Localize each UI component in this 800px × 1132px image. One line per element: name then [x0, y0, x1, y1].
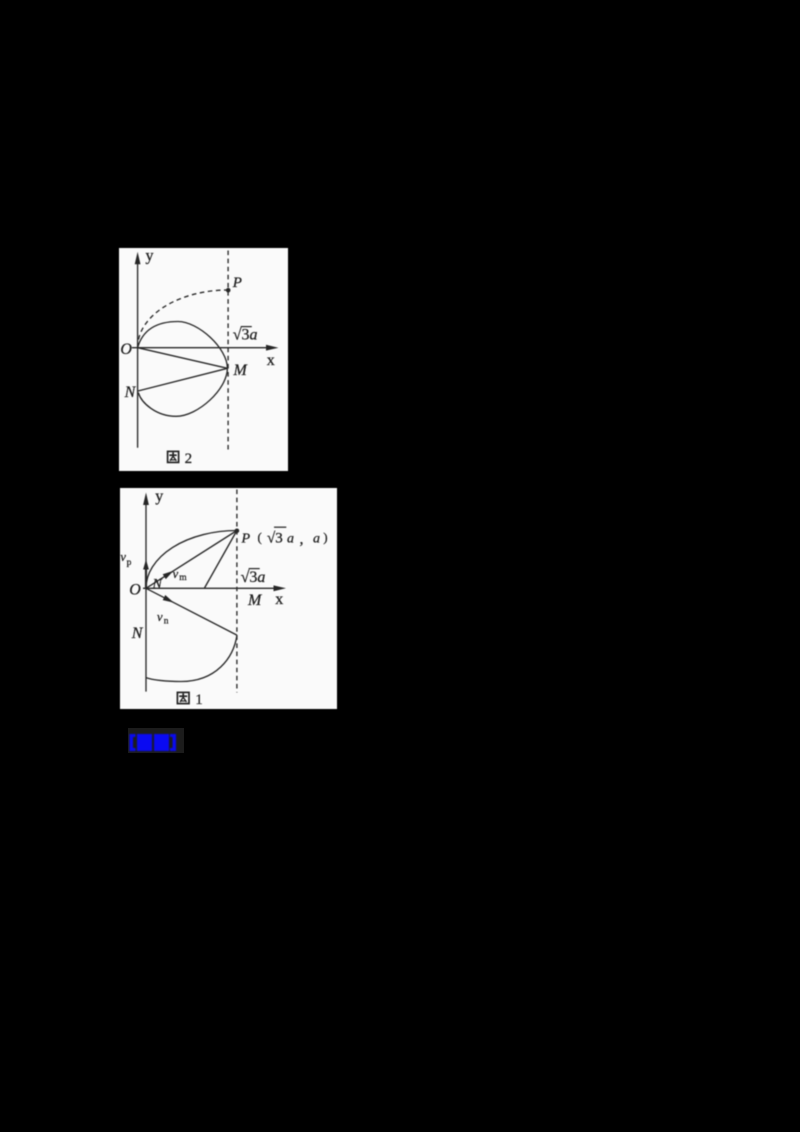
y-axis arrowhead — [143, 493, 149, 506]
chord O-A (n trajectory start) — [146, 588, 237, 635]
chord O-P — [146, 531, 237, 589]
svg-text:x: x — [275, 591, 283, 608]
解析 label (blue) — [128, 728, 184, 753]
svg-text:√3: √3 — [267, 531, 283, 547]
vn arrowhead — [163, 595, 174, 603]
y-axis — [137, 263, 139, 448]
figure box 图2 (upper figure) — [119, 248, 288, 471]
svg-text:n: n — [164, 617, 169, 627]
svg-text:y: y — [146, 248, 154, 265]
bracket left of 【解析】 — [130, 734, 136, 751]
svg-text:v: v — [173, 567, 179, 581]
svg-text:y: y — [155, 488, 163, 505]
svg-text:2: 2 — [185, 451, 193, 467]
vm arrowhead — [163, 571, 174, 579]
circle through O N M — [138, 322, 228, 417]
chord O-M — [138, 348, 228, 369]
svg-text:N: N — [124, 384, 137, 401]
char 析 (approximated dense block) — [154, 734, 169, 751]
x-axis — [143, 587, 275, 589]
figure box 图1 (lower figure) — [120, 488, 337, 709]
y-axis — [145, 503, 147, 692]
svg-text:M: M — [247, 592, 263, 609]
svg-text:√3a: √3a — [233, 327, 258, 344]
svg-text:O: O — [129, 582, 141, 599]
svg-text:v: v — [120, 550, 126, 564]
arc O to P (m trajectory) — [146, 531, 237, 589]
svg-text:(: ( — [258, 530, 262, 545]
y-axis arrowhead — [135, 252, 141, 264]
svg-text:N: N — [152, 577, 163, 592]
svg-text:P: P — [232, 275, 242, 291]
svg-text:m: m — [179, 573, 187, 583]
svg-text:p: p — [127, 558, 132, 568]
svg-text:a: a — [287, 532, 294, 547]
x-axis arrowhead — [266, 345, 279, 351]
svg-text:): ) — [323, 530, 327, 545]
svg-text:M: M — [233, 362, 249, 379]
arc A to y-axis (n trajectory) — [146, 635, 237, 681]
svg-text:N: N — [131, 625, 144, 642]
x-axis — [132, 347, 268, 349]
caption 图 1 — [177, 692, 189, 703]
svg-text:,: , — [300, 531, 304, 548]
char 解 (approximated dense block) — [137, 734, 152, 751]
bracket right — [170, 734, 176, 751]
svg-text:√3a: √3a — [241, 569, 266, 586]
radius P-C — [205, 531, 237, 589]
x-axis arrowhead — [274, 585, 287, 591]
svg-text:1: 1 — [195, 692, 203, 708]
svg-text:O: O — [120, 341, 132, 358]
chord N-M — [138, 368, 228, 391]
dashed vertical line x=sqrt3 a — [227, 251, 229, 453]
caption 图 2 — [168, 451, 179, 462]
dashed trajectory O to P — [138, 290, 229, 348]
svg-text:x: x — [267, 352, 275, 369]
vp arrow shaft — [145, 566, 147, 588]
svg-text:v: v — [157, 610, 163, 624]
dashed vertical line — [236, 490, 238, 693]
svg-text:a: a — [313, 532, 320, 547]
point P dot — [226, 288, 231, 293]
svg-text:P: P — [241, 532, 251, 547]
vp arrowhead — [143, 560, 149, 570]
point P dot — [235, 529, 240, 534]
